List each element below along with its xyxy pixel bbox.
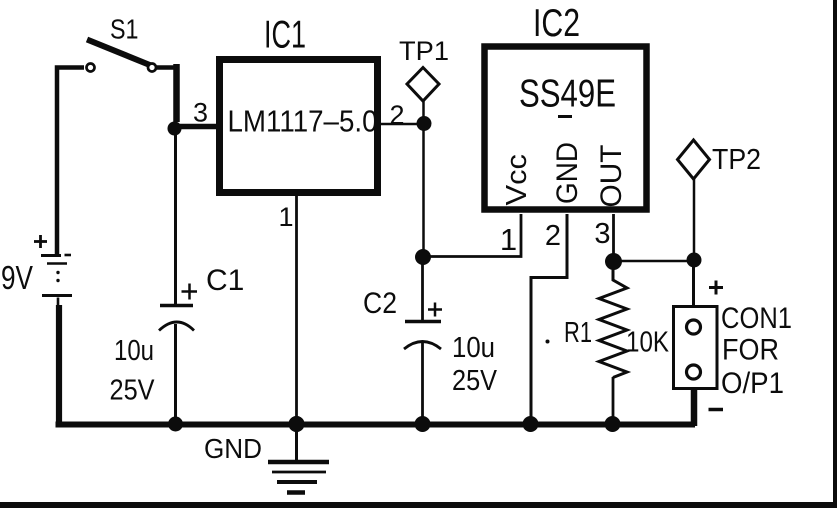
capacitor C1: [159, 306, 194, 331]
svg-text:R1: R1: [564, 317, 592, 349]
wire node A to C1: [174, 128, 177, 304]
IC2 pin 3 wire to node C: [612, 214, 615, 256]
test point TP2 diamond: [678, 140, 710, 179]
svg-text:SS49E: SS49E: [519, 73, 616, 116]
svg-text:Vcc: Vcc: [501, 154, 533, 206]
resistor R1 zigzag: [599, 261, 627, 378]
svg-text:3: 3: [193, 98, 208, 128]
wire battery positive to switch S1 left terminal: [57, 68, 84, 256]
svg-text:IC2: IC2: [533, 2, 580, 45]
wire node D to CON1: [692, 260, 695, 306]
CON1 minus sign: [709, 408, 724, 412]
junction node C (OUT net): [605, 253, 622, 270]
switch S1: [87, 40, 157, 72]
junction dot IC2 GND on rail: [523, 416, 539, 432]
wire R1 to ground rail: [612, 377, 615, 424]
wire TP2 diamond to node D: [693, 179, 696, 254]
IC2 pin 2 wire to ground rail: [531, 214, 567, 424]
svg-text:GND: GND: [204, 433, 262, 464]
svg-text:O/P1: O/P1: [721, 367, 784, 400]
battery plus sign: [34, 235, 47, 248]
wire node B to IC2 pin 1: [423, 214, 521, 257]
svg-text:OUT: OUT: [595, 145, 628, 208]
svg-text:IC1: IC1: [264, 14, 306, 57]
wire node C to node D: [614, 260, 695, 263]
wire TP1 diamond to node TP1: [422, 101, 425, 120]
wire CON1 to ground rail: [691, 389, 698, 426]
junction node D (TP2/CON1): [687, 253, 702, 268]
wire C1 to ground rail: [174, 324, 177, 424]
battery BT1 9V: [41, 255, 72, 306]
IC1 LM1117-5.0 box: [220, 60, 378, 193]
svg-text:10u: 10u: [114, 335, 154, 367]
capacitor C2: [404, 322, 441, 350]
svg-text:CON1: CON1: [721, 302, 792, 335]
junction dot C1 on rail: [168, 417, 183, 432]
svg-text:10K: 10K: [626, 327, 670, 359]
C1 plus sign: [182, 284, 198, 300]
CON1 hole 2: [687, 365, 701, 379]
wire S1 right terminal to node A: [156, 65, 177, 70]
svg-text:FOR: FOR: [722, 334, 779, 367]
connector CON1 box: [674, 307, 718, 389]
wire battery negative to ground rail: [56, 305, 62, 422]
CON1 hole 1: [687, 320, 701, 334]
svg-text:C2: C2: [363, 287, 397, 320]
IC2 SS49E box: [485, 47, 647, 210]
svg-text:TP1: TP1: [399, 36, 449, 66]
junction node A: [168, 122, 182, 136]
svg-text:TP2: TP2: [712, 144, 761, 176]
wire node B to C2: [421, 257, 424, 320]
svg-text:C1: C1: [206, 264, 244, 297]
svg-text:1: 1: [500, 222, 517, 257]
junction node B: [415, 249, 431, 265]
svg-text:25V: 25V: [452, 365, 498, 397]
svg-text:25V: 25V: [110, 375, 156, 407]
junction dot R1 on rail: [605, 416, 621, 432]
svg-text:9V: 9V: [1, 259, 33, 296]
speck before R1: [546, 340, 550, 344]
svg-text:10u: 10u: [452, 332, 495, 364]
junction dot ground rail / GND symbol: [289, 416, 305, 432]
svg-text:1: 1: [278, 202, 293, 232]
dash under SS49E: [558, 115, 572, 118]
wire IC1 pin 1 to ground rail: [295, 196, 298, 424]
wire node A to IC1 pin 3: [175, 124, 219, 130]
svg-text:S1: S1: [110, 14, 139, 45]
svg-text:LM1117–5.0: LM1117–5.0: [228, 104, 378, 139]
junction node TP1 (5V net): [417, 116, 432, 131]
test point TP1 diamond: [407, 68, 439, 102]
junction dot C2 on rail: [415, 416, 431, 432]
svg-text:3: 3: [594, 218, 610, 250]
junction dot IC1 pin1 / GND on rail: [289, 416, 305, 432]
svg-text:2: 2: [545, 220, 561, 252]
C2 plus sign: [428, 303, 442, 317]
wire IC1 pin 2 to node TP1: [381, 123, 418, 126]
wire node TP1 down to node B: [422, 124, 425, 252]
ground symbol: [268, 424, 329, 493]
svg-text:2: 2: [389, 100, 404, 130]
CON1 plus sign: [709, 281, 723, 295]
svg-text:GND: GND: [551, 142, 584, 204]
ground rail (bottom bus): [56, 422, 696, 428]
wire C2 to ground rail: [421, 342, 424, 424]
